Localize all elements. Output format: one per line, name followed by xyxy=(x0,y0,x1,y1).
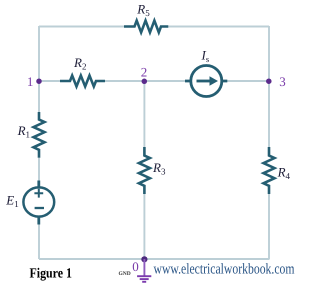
svg-text:GND: GND xyxy=(119,271,131,277)
svg-text:R5: R5 xyxy=(136,2,150,19)
svg-text:R2: R2 xyxy=(73,55,86,72)
svg-text:R1: R1 xyxy=(17,123,30,140)
svg-text:1: 1 xyxy=(27,74,34,89)
svg-text:0: 0 xyxy=(132,259,139,274)
svg-text:Is: Is xyxy=(201,48,210,64)
svg-text:R3: R3 xyxy=(152,160,166,177)
svg-text:R4: R4 xyxy=(277,164,291,181)
svg-text:3: 3 xyxy=(279,74,286,89)
svg-text:E1: E1 xyxy=(5,192,18,209)
svg-text:2: 2 xyxy=(141,65,148,80)
svg-text:Figure 1: Figure 1 xyxy=(30,266,73,281)
svg-text:www.electricalworkbook.com: www.electricalworkbook.com xyxy=(154,261,295,277)
